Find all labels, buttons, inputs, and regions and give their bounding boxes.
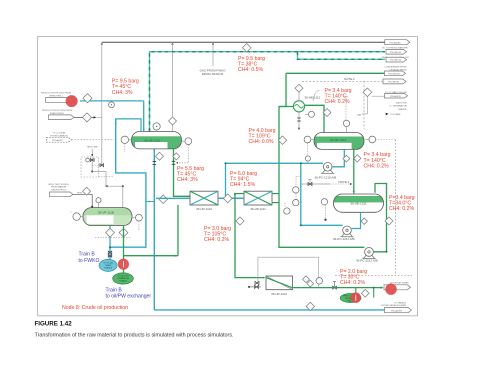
svg-text:CH4: 0.2%: CH4: 0.2%: [364, 164, 389, 170]
wire: crude out green line to flag: [293, 287, 383, 289]
off-page ellipse: from oil train (green, bottom right): [340, 294, 361, 303]
wire: test line to vessel: [73, 193, 92, 195]
wire: dashed instrument link to green drop: [187, 158, 189, 163]
svg-text:36-HP-1112: 36-HP-1112: [271, 292, 287, 296]
svg-text:NOTE 2: NOTE 2: [344, 77, 355, 81]
valve diamond on crude out line: [361, 290, 369, 298]
wire: long green vertical and bottom run to pump 36-PC-1212: [279, 107, 364, 248]
wire: gas-from-FWKO stub: [212, 42, 214, 66]
svg-text:CH4: 0.2%: CH4: 0.2%: [325, 99, 350, 105]
wire: teal inlet line 1: [80, 100, 144, 102]
valve diamond at HX suction: [159, 195, 168, 204]
control valve beside 30-HE-1112: [309, 111, 315, 117]
wire: green from 36-VP-1100 drop joining: [124, 255, 179, 257]
wire: dashed interconnect below 36-VP-1100: [95, 236, 131, 238]
valve diamond on bottom header: [306, 302, 314, 310]
svg-text:Transformation of the raw mate: Transformation of the raw material to pr…: [35, 333, 234, 339]
wire: NOTE 2 dashed line: [302, 80, 383, 82]
svg-text:36-HP-1110: 36-HP-1110: [196, 207, 212, 211]
wire: 30-HE-1112 outlet green to 30-VE-1210 top: [305, 105, 324, 132]
off-page ellipse: drain train B (teal): [99, 259, 117, 271]
heat exchanger 36-HP-1110: [190, 191, 218, 205]
svg-text:Node 8: Crude oil production: Node 8: Crude oil production: [62, 305, 128, 311]
wire: pipe rack header: [102, 41, 385, 43]
wire: cyan line through exchangers: [156, 197, 272, 199]
svg-text:CH4: 3%: CH4: 3%: [112, 90, 133, 96]
svg-text:PID-980 B1: PID-980 B1: [389, 73, 401, 75]
svg-text:TY LO OB AT: TY LO OB AT: [52, 132, 66, 135]
svg-text:CONDENSATE FROM: CONDENSATE FROM: [384, 65, 406, 68]
valve diamond + ticks below 36-VE-1110: [156, 152, 164, 160]
instrument circles at 36-VP-1100 ends: [73, 213, 80, 220]
wire: 36-VP-1100 green drop to expansion ellipse: [123, 226, 125, 274]
svg-text:CH4: 0.0%: CH4: 0.0%: [249, 139, 274, 145]
wire: condensate green header to right flag: [286, 72, 385, 74]
svg-text:CH4: 1.5%: CH4: 1.5%: [230, 182, 255, 188]
wire: arrowed line to 36-VP-1100 inlet: [92, 171, 106, 173]
svg-text:FROM WATER/: FROM WATER/: [51, 186, 67, 189]
wire: 36-HP-1110 bottom outlet: [177, 205, 179, 256]
svg-text:C / GENERATOR: C / GENERATOR: [389, 105, 406, 108]
wire: green feed from 36-VE-1110 to 36-HP-1110: [174, 149, 191, 197]
wire: pump discharge to 30-VE-1210: [332, 149, 344, 166]
svg-text:Train B: Train B: [106, 287, 123, 293]
svg-text:PRODUCTION FLUIDS FROM: PRODUCTION FLUIDS FROM: [42, 110, 72, 112]
svg-text:36-PC-1211 A/B: 36-PC-1211 A/B: [333, 237, 354, 241]
svg-text:LAB: LAB: [357, 113, 362, 116]
svg-text:36-VE-1211: 36-VE-1211: [350, 202, 367, 206]
valve diamonds on recycle outlet: [303, 276, 310, 283]
label: TO FLARE: [386, 113, 389, 116]
svg-text:TO FLARE: TO FLARE: [390, 113, 401, 116]
svg-text:HYDROCARBON DRAIN: HYDROCARBON DRAIN: [381, 304, 406, 307]
svg-text:TRAIN B: TRAIN B: [119, 280, 128, 283]
svg-text:TRAIN B: TRAIN B: [398, 108, 407, 111]
svg-text:PRODUCTION FLUIDS FROM: PRODUCTION FLUIDS FROM: [41, 92, 71, 94]
instrument circle above 36-VE-1110: [153, 123, 160, 130]
wire: green riser at x=286: [279, 73, 286, 106]
instrument LA with dashed drop: [321, 199, 327, 205]
wire: stub down from junction: [373, 287, 375, 289]
heat exchanger 30-HE-1112: [293, 101, 304, 112]
wire: dashed link to riser valve: [92, 165, 102, 167]
drain valves on 36-HP-1112 inlet: [255, 281, 259, 284]
valve diamond on transfer line: [354, 155, 361, 162]
wire: dashed gas line B branch: [298, 52, 386, 60]
wire: teal drop into 36-VE-1110: [143, 101, 145, 131]
wire: green exit stubs to long vertical: [272, 193, 279, 195]
recycle box around 36-HP-1112: [258, 257, 319, 287]
wire: 30-VE-1210 bottom outlet green to 36-VE-1211: [353, 149, 355, 193]
wire: dashed from right circle to battery limit: [376, 139, 396, 141]
wire: gas riser from vessel 36-VE-1110: [172, 42, 174, 117]
svg-text:TO TRAIN B: TO TRAIN B: [394, 301, 407, 304]
valve diamond on green drop: [173, 153, 180, 160]
instrument circles at 36-VE-1110 ends: [121, 136, 128, 143]
instrument circles at 30-VE-1210 ends: [304, 136, 311, 143]
wire: riser from rack down left side: [101, 42, 103, 165]
wire: cyan drop x=300.8 and run to pump 36-PC-1211: [301, 163, 343, 225]
heat exchanger 36-HP-1112: [266, 276, 293, 290]
svg-text:CH4: 0.2%: CH4: 0.2%: [389, 206, 414, 212]
svg-text:NOTE 3: NOTE 3: [339, 180, 350, 184]
svg-text:TEST LINE: TEST LINE: [86, 146, 98, 148]
red highlight circle (node) on inlet 1: [66, 95, 78, 107]
off-page ellipse: oil expansion train B (green): [113, 273, 134, 284]
svg-text:PID-A0097: PID-A0097: [52, 139, 63, 142]
svg-text:36-PC-1210 A/B: 36-PC-1210 A/B: [315, 175, 337, 179]
wire: battery limit dashed vertical: [395, 140, 397, 276]
wire: dashed gas line A: [150, 52, 386, 132]
wire: dashed continuation right of box: [99, 176, 115, 178]
valve diamond on pump riser: [343, 155, 350, 162]
svg-text:to FWKO: to FWKO: [79, 258, 100, 264]
valve diamonds below 36-VP-1100: [119, 228, 128, 237]
valve diamond on long green vertical: [278, 136, 286, 144]
wire: dashed drop toward 30-VE-1210: [363, 81, 365, 129]
svg-text:36-VP-1100: 36-VP-1100: [98, 211, 115, 215]
svg-text:30-VE-1210: 30-VE-1210: [330, 138, 347, 142]
wire: 36-VE-1211 top outlet loop to pump 36-PC-1212: [374, 184, 387, 252]
svg-text:TO OIL AS: TO OIL AS: [103, 261, 113, 264]
vessel 36-VE-1211: [334, 194, 384, 212]
wire: feed down to 36-HP-1112: [235, 194, 265, 278]
svg-text:CH4: 0.5%: CH4: 0.5%: [238, 67, 263, 73]
wire: gray inlet line 2: [74, 116, 94, 118]
svg-text:Train B: Train B: [79, 252, 96, 258]
wire: cyan run down to recycle corner: [110, 119, 146, 247]
svg-text:PID-A0099: PID-A0099: [390, 95, 401, 98]
svg-text:FIGURE 1.42: FIGURE 1.42: [35, 321, 73, 328]
wire: link between exchangers: [218, 197, 244, 199]
wire: 36-VE-1211 bottom outlet to pump: [352, 212, 361, 228]
valve diamond on inlet 1: [83, 94, 92, 103]
diamond + lines to flare: [363, 88, 372, 97]
wire: 36-VE-1110 bottom outlet down to bottom header: [153, 149, 155, 310]
svg-text:GAU PY08: GAU PY08: [396, 101, 407, 104]
annotation 3 leader: [313, 90, 320, 101]
pump 36-PC-1212 A/B: [363, 255, 374, 259]
svg-text:36-PC-1212 A/B: 36-PC-1212 A/B: [356, 259, 378, 263]
svg-text:PID-A0099: PID-A0099: [391, 310, 402, 313]
svg-text:DRUPS PET-U: DRUPS PET-U: [51, 189, 66, 191]
wire: 36-VP-1100 bottom outlet (teal) to drain ellipse: [109, 226, 111, 260]
wire: stub to downcomer: [147, 201, 155, 203]
wire: dashed line from flag 3: [72, 139, 115, 141]
pump 36-PC-1211 A/B: [342, 233, 353, 237]
vessel 36-VP-1100: [83, 208, 132, 226]
svg-text:PID-980 B1: PID-980 B1: [388, 82, 400, 84]
stream flag F1 (rack): [385, 40, 410, 45]
valve diamond on HE outlet: [323, 109, 331, 117]
svg-text:CH4: 3%: CH4: 3%: [177, 177, 198, 183]
valve diamond on dashed line A: [243, 44, 252, 53]
svg-text:PID-980 B1: PID-980 B1: [390, 60, 402, 62]
vessel 30-VE-1210: [314, 133, 364, 150]
red highlight circle on crude flag: [385, 284, 396, 295]
red highlight circle (bottom right 2): [351, 292, 362, 303]
instrument cluster left of 36-VE-1211: [295, 177, 297, 200]
wire: dashed instrument line above 30-VE-1210: [345, 98, 347, 120]
svg-text:CH4: 0.2%: CH4: 0.2%: [204, 237, 229, 243]
svg-text:CH4: 0.2%: CH4: 0.2%: [340, 280, 365, 286]
valve diamonds near exchangers: [223, 194, 232, 203]
wire: drop below 30-HE-1112: [298, 112, 300, 127]
svg-text:DRUM TRAIN B: DRUM TRAIN B: [202, 72, 224, 76]
valve diamond above 30-HE-1112: [298, 84, 300, 101]
instrument on cyan line: [305, 156, 310, 161]
instrument on recycle box: [316, 278, 323, 285]
heat exchanger 36-HP-1111: [244, 191, 272, 205]
svg-text:WELL TEST FLUIDS: WELL TEST FLUIDS: [48, 184, 69, 186]
svg-text:to oil/PW exchanger: to oil/PW exchanger: [106, 294, 152, 300]
wire: cyan branch rectangle: [116, 119, 141, 131]
instrument circle on inlet line: [109, 102, 115, 108]
svg-text:36-HP-1111: 36-HP-1111: [250, 207, 266, 211]
pump 36-PC-1210 A/B: [322, 169, 333, 173]
wire: bottom cyan header: [154, 309, 384, 311]
border frame: [38, 37, 418, 316]
svg-text:PID-980 B1: PID-980 B1: [390, 52, 402, 54]
instrument circle above 36-VP-1100: [96, 198, 101, 203]
svg-text:30-HE-1112: 30-HE-1112: [305, 96, 321, 100]
wire: cyan feed from upper right: [226, 163, 324, 198]
node: arrow into vessel 36-VE-1110 top: [148, 129, 150, 132]
svg-text:WHRU PER-1: WHRU PER-1: [49, 95, 64, 97]
valve diamond on gas riser: [169, 117, 177, 125]
red highlight circle (node 8): [118, 259, 129, 270]
svg-text:TRAIN B: TRAIN B: [104, 266, 113, 269]
valve diamond near 36-VE-1211 outlet: [361, 218, 367, 224]
dashed box: test manifold: [81, 157, 99, 177]
valve diamond on green riser: [385, 217, 393, 225]
svg-text:PID-A0098: PID-A0098: [390, 41, 401, 44]
drain vent on crude line: [334, 282, 336, 288]
svg-text:36-VE-1110: 36-VE-1110: [144, 139, 160, 143]
stream flag F5: [383, 79, 406, 84]
instrument circle above 30-VE-1210: [343, 120, 349, 126]
valve in test manifold: [91, 157, 93, 172]
node: rack tick arrows: [101, 42, 103, 44]
bypass line with valve (NOTE 3): [301, 183, 330, 185]
